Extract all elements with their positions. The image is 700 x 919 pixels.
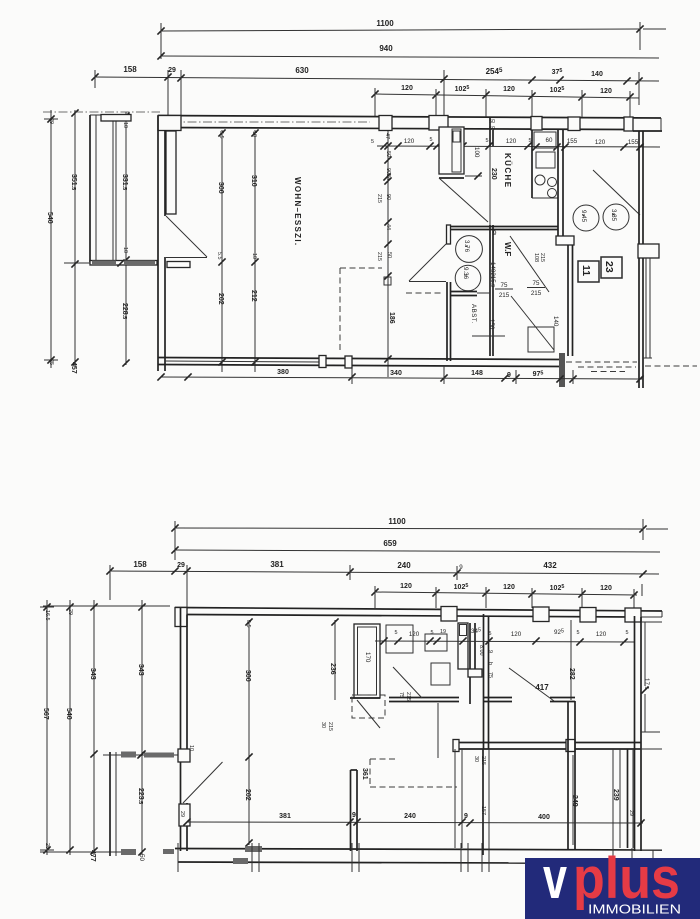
dashed niche outline in living room (upper) (340, 268, 382, 352)
svg-text:567: 567 (42, 708, 49, 720)
extension line bottom left (lower) (40, 851, 130, 853)
svg-text:343: 343 (137, 664, 144, 676)
svg-text:239: 239 (612, 789, 619, 801)
svg-text:5: 5 (486, 138, 489, 144)
middle wall between rooms (lower) (351, 770, 358, 851)
fraction 75/215 left (upper) (495, 282, 513, 299)
bath door swing (upper) (409, 244, 446, 282)
svg-text:215: 215 (499, 292, 510, 299)
interior dim line across rooms (lower) (375, 628, 634, 646)
svg-text:19: 19 (440, 629, 446, 635)
right room circles 9.45 / 3.85 (upper) (573, 204, 629, 231)
interior dim line 300/202 (lower) (244, 618, 253, 846)
svg-text:30: 30 (320, 722, 326, 728)
svg-text:9024: 9024 (385, 168, 391, 180)
svg-text:60: 60 (546, 137, 553, 144)
dash-dot extension top left (upper) (43, 111, 160, 113)
top wall inner line (lower) (187, 615, 634, 618)
svg-text:659: 659 (383, 539, 397, 548)
hallway dashed closet (lower) (352, 695, 385, 728)
washer room fixtures (lower) (386, 625, 450, 685)
dimension line 1100 (lower) (171, 517, 668, 560)
svg-text:240: 240 (397, 561, 411, 570)
svg-text:25: 25 (44, 843, 50, 849)
W.F door swing (upper) (510, 236, 549, 292)
kitchen left wall segments (upper) (490, 117, 493, 356)
svg-text:215: 215 (376, 252, 382, 261)
svg-text:ABST.: ABST. (470, 304, 477, 324)
shaft rect in W.F (upper) (528, 327, 554, 352)
svg-text:25: 25 (48, 359, 54, 365)
svg-text:KÜCHE: KÜCHE (503, 153, 512, 188)
top wall right jog (upper) (633, 118, 662, 131)
svg-text:120: 120 (511, 631, 522, 638)
svg-text:29: 29 (48, 118, 54, 124)
bottom wall window stubs (lower) (178, 843, 653, 872)
interior dim line 300/202 (upper) (217, 129, 226, 372)
svg-text:9.45: 9.45 (580, 210, 587, 223)
dimension line 158/29/381/240/432 (lower) (106, 560, 659, 607)
dim labels 34.5 / 5.00 column (lower) (478, 645, 493, 678)
svg-text:47: 47 (384, 133, 390, 139)
svg-text:29: 29 (168, 67, 176, 74)
svg-text:5: 5 (430, 137, 433, 143)
svg-text:17.5: 17.5 (643, 678, 650, 689)
left wall (upper) (158, 116, 165, 372)
center column cupboard (lower) (458, 623, 482, 704)
svg-text:3.76: 3.76 (463, 240, 470, 253)
top wall corner pier left (upper) (158, 116, 181, 131)
left vertical dimension line 540 (upper) (44, 110, 58, 368)
svg-text:361: 361 (361, 768, 368, 780)
fraction 30/215 hall (lower) (320, 722, 333, 731)
svg-text:5.5: 5.5 (218, 131, 224, 139)
threshold right of left wall (upper) (167, 262, 190, 268)
svg-text:215: 215 (405, 692, 411, 701)
top wall pier c (lower) (580, 608, 596, 623)
svg-text:5: 5 (395, 630, 398, 636)
svg-text:120: 120 (595, 139, 606, 146)
logo vplus immobilien (525, 846, 700, 919)
svg-text:186: 186 (388, 312, 395, 324)
dim chain hall divider (upper) (371, 131, 395, 377)
svg-text:5: 5 (489, 631, 492, 637)
door swing left room (lower) (183, 762, 223, 803)
svg-text:340: 340 (390, 370, 402, 377)
svg-text:v: v (543, 846, 567, 911)
svg-text:29: 29 (179, 811, 185, 817)
svg-text:8.00: 8.00 (478, 645, 484, 656)
left vertical dimension line 351.5/457 (upper) (70, 109, 79, 373)
left vertical dimension line 567 (lower) (40, 600, 54, 855)
svg-text:170: 170 (364, 652, 371, 663)
svg-text:215: 215 (531, 290, 542, 297)
top wall inner line (upper) (165, 128, 624, 130)
svg-text:120: 120 (600, 88, 612, 95)
svg-text:351.5: 351.5 (70, 174, 77, 190)
svg-text:120: 120 (400, 583, 412, 590)
svg-text:5.5: 5.5 (216, 252, 222, 260)
svg-text:10: 10 (122, 122, 128, 128)
top wall outer line (upper) (158, 116, 661, 119)
interior dim line 310/212 (upper) (250, 129, 259, 372)
svg-text:140: 140 (591, 71, 603, 78)
svg-text:215: 215 (376, 194, 382, 203)
svg-text:230: 230 (490, 168, 497, 180)
svg-text:240: 240 (404, 813, 416, 820)
svg-text:108: 108 (533, 253, 539, 262)
balcony rail outer (upper) (90, 115, 101, 262)
dimension line 659 (lower) (171, 539, 660, 554)
right wall pier (upper) (638, 244, 659, 258)
dim guide line hall (lower) (437, 703, 439, 758)
svg-text:215: 215 (539, 253, 545, 262)
svg-text:540: 540 (65, 708, 72, 720)
bath circles 3.76 / 9.36 (upper) (455, 236, 482, 291)
svg-text:343: 343 (89, 668, 96, 680)
bath bottom wall (upper) (450, 292, 490, 296)
balcony rails left (lower) (110, 752, 116, 856)
balcony divider bottom with hatch (upper) (90, 259, 157, 266)
top wall outer line (lower) (175, 608, 662, 612)
top wall pier a (upper) (429, 116, 448, 131)
svg-text:16.5: 16.5 (44, 610, 50, 621)
kitchen labels (upper) (490, 153, 512, 188)
svg-text:630: 630 (295, 66, 309, 75)
left vertical dimension line 343/223.5/50 (lower) (137, 600, 146, 861)
balcony rail inner (upper) (113, 115, 116, 262)
middle room bottom wall (lower) (389, 698, 459, 702)
svg-text:120: 120 (409, 631, 420, 638)
svg-text:5: 5 (529, 138, 532, 144)
svg-text:WOHN–ESSZI.: WOHN–ESSZI. (293, 177, 302, 246)
interior dim line across hall/kitchen (upper) (377, 135, 660, 151)
svg-text:30: 30 (473, 756, 479, 762)
svg-text:202: 202 (217, 293, 224, 305)
svg-text:1100: 1100 (376, 19, 394, 28)
svg-text:300: 300 (244, 670, 251, 682)
svg-text:380: 380 (277, 369, 289, 376)
right wall (lower) (635, 616, 642, 851)
right room bottom wall segments (lower) (483, 698, 575, 702)
interior dim line 236 (lower) (329, 618, 339, 700)
bottom wall (upper) (158, 358, 564, 367)
right railing (upper) (643, 258, 652, 358)
svg-text:100: 100 (473, 147, 480, 158)
svg-text:417: 417 (535, 683, 549, 692)
svg-text:228.5: 228.5 (121, 303, 128, 319)
svg-text:5.5: 5.5 (245, 620, 251, 628)
svg-text:75: 75 (398, 692, 404, 698)
balcony divider with hatch (lower) (103, 745, 194, 759)
terrace rails a (lower) (455, 749, 462, 848)
svg-text:29: 29 (628, 810, 634, 816)
fraction 140/215.9 (upper) (489, 262, 496, 287)
left vertical dimension line 540 (lower) (65, 600, 74, 855)
svg-text:120: 120 (596, 631, 607, 638)
svg-text:282: 282 (568, 668, 575, 680)
top wall pier d / right corner (upper) (624, 117, 633, 131)
bottom wall right end cap (upper) (559, 353, 565, 387)
dimension line 120/102.5 row (lower) (371, 583, 642, 611)
wardrobe on left wall (upper) (166, 131, 176, 214)
svg-text:331.5: 331.5 (121, 174, 128, 190)
dim 282 rotated (lower) (568, 620, 575, 700)
ABST shelf line (upper) (472, 335, 505, 337)
svg-text:300: 300 (217, 182, 224, 194)
svg-text:120: 120 (401, 85, 413, 92)
svg-text:23: 23 (603, 261, 615, 273)
svg-text:9: 9 (352, 812, 356, 819)
closet 170 (lower) (354, 624, 380, 698)
top wall pier b (upper) (531, 117, 542, 131)
svg-text:148: 148 (471, 370, 483, 377)
dimension line 158/29/630/254.5/37.5/140 (upper) (91, 65, 659, 117)
right wall extras (lower) (636, 622, 662, 749)
dimension line 940 (upper) (157, 44, 659, 60)
svg-text:11: 11 (580, 265, 592, 276)
svg-text:9: 9 (487, 650, 493, 653)
svg-text:202: 202 (244, 789, 251, 801)
fraction 75/215 right (upper) (527, 280, 545, 297)
svg-text:381: 381 (279, 813, 291, 820)
right room door swing (lower) (509, 668, 554, 701)
svg-text:155: 155 (628, 139, 639, 146)
svg-text:W.F: W.F (503, 242, 512, 256)
svg-text:120: 120 (506, 138, 517, 145)
svg-text:223.5: 223.5 (137, 788, 144, 804)
svg-text:44: 44 (385, 224, 391, 230)
hall dashes (upper) (406, 292, 442, 294)
svg-text:120: 120 (503, 86, 515, 93)
svg-text:9.36: 9.36 (462, 267, 469, 280)
svg-text:9: 9 (493, 230, 497, 237)
svg-text:75: 75 (501, 282, 508, 289)
closet bottom corner (lower) (350, 697, 380, 699)
svg-text:IMMOBILIEN: IMMOBILIEN (588, 902, 681, 917)
right wall (upper) (639, 131, 643, 388)
left vertical dimension line 343/477 (lower) (89, 600, 98, 862)
top wall right corner (lower) (625, 608, 662, 622)
svg-text:5: 5 (371, 139, 374, 145)
bottom wall hatch blocks (lower) (121, 846, 262, 864)
svg-text:215: 215 (327, 722, 333, 731)
top wall pier a (lower) (441, 607, 457, 622)
svg-text:5: 5 (577, 630, 580, 636)
svg-text:157: 157 (480, 806, 486, 815)
svg-text:29: 29 (67, 609, 73, 615)
ABST door swing (upper) (511, 296, 554, 350)
svg-text:10: 10 (251, 253, 257, 259)
svg-text:120: 120 (600, 585, 612, 592)
svg-text:90: 90 (385, 194, 391, 200)
terrace dashes bottom right (upper) (566, 362, 697, 372)
kitchen cupboard block (upper) (439, 127, 464, 178)
svg-text:1100: 1100 (388, 517, 406, 526)
svg-text:50: 50 (386, 252, 392, 258)
svg-text:236: 236 (329, 663, 336, 675)
unit number boxes 11 / 23 (upper) (578, 257, 622, 282)
top wall pier b (lower) (533, 607, 549, 622)
svg-text:540: 540 (46, 212, 53, 224)
door jamb and 29 label on left wall (lower) (178, 749, 190, 826)
dimension line 120/102.5 row (upper) (371, 85, 639, 117)
svg-text:5: 5 (626, 630, 629, 636)
top wall corner pier left (lower) (175, 608, 187, 627)
fraction 108/215 rotated (upper) (533, 253, 545, 262)
svg-text:50: 50 (385, 151, 391, 157)
dim 249 rotated (lower) (571, 755, 578, 845)
svg-text:212: 212 (250, 290, 257, 302)
svg-text:120: 120 (404, 138, 415, 145)
svg-text:9: 9 (464, 813, 468, 820)
svg-text:b: b (487, 662, 493, 665)
right room left wall (lower) (484, 614, 489, 749)
wall pillar under top wall at hall (upper) (379, 116, 392, 131)
bottom wall (lower) (175, 849, 662, 864)
kitchen door swing diagonal (upper) (439, 178, 488, 222)
top wall dash-dot centerline (upper) (172, 121, 370, 123)
terrace rails d (lower) (628, 749, 634, 848)
dim 239 rotated (lower) (612, 789, 634, 816)
svg-text:9: 9 (507, 372, 511, 379)
svg-text:120: 120 (503, 584, 515, 591)
svg-text:155: 155 (567, 138, 578, 145)
right room door swing (upper) (593, 170, 640, 215)
svg-text:381: 381 (270, 560, 284, 569)
svg-text:3.85: 3.85 (610, 209, 617, 222)
svg-text:10: 10 (122, 247, 128, 253)
svg-text:158: 158 (133, 560, 147, 569)
dim arrow 100 (upper kitchen) (465, 147, 482, 180)
svg-text:310: 310 (250, 175, 257, 187)
bath top wall (upper) (447, 225, 559, 244)
svg-text:50: 50 (138, 854, 145, 861)
terrace rails c (lower) (613, 749, 620, 848)
svg-text:158: 158 (123, 65, 137, 74)
balcony front wall (lower) (453, 740, 641, 752)
left wall (lower) (181, 608, 188, 852)
kitchen right wall (upper) (556, 130, 574, 356)
svg-text:150: 150 (488, 319, 495, 330)
bottom wall jambs (upper) (319, 356, 352, 369)
terrace rails b (lower) (483, 749, 489, 855)
svg-text:432: 432 (543, 561, 557, 570)
svg-text:10: 10 (251, 131, 257, 137)
bottom dimension line 381/9/240/9/400 (lower) (183, 806, 644, 827)
terrace wall mid (lower) (568, 701, 575, 849)
extension line top left (lower) (43, 605, 170, 607)
wall below bath door jamb (upper) (447, 282, 451, 361)
svg-text:75: 75 (487, 672, 493, 678)
dimension line 1100 (upper) (157, 19, 666, 59)
balcony door swing (upper) (166, 216, 207, 258)
top wall pier c (upper) (568, 117, 580, 131)
svg-text:400: 400 (538, 814, 550, 821)
svg-text:29: 29 (177, 562, 185, 569)
svg-text:249: 249 (571, 795, 578, 807)
svg-text:75: 75 (533, 280, 540, 287)
kitchen counter with sink and burners (upper) (532, 130, 558, 198)
left vertical dimension line 331.5/228.5 (upper) (121, 112, 130, 367)
svg-text:140: 140 (552, 316, 559, 327)
svg-text:9: 9 (459, 564, 463, 571)
svg-text:140215.9: 140215.9 (489, 262, 496, 287)
fraction 30/215 balcony door (lower) (473, 756, 486, 765)
balcony parapet bar top (upper) (101, 115, 131, 122)
svg-text:5: 5 (431, 630, 434, 636)
bottom dimension line 380/340/148/9/97.5 (upper) (157, 366, 643, 384)
dashed storage outline (lower) (370, 759, 457, 787)
svg-text:940: 940 (379, 44, 393, 53)
middle room door swing (lower) (393, 667, 422, 701)
svg-text:457: 457 (70, 362, 77, 374)
